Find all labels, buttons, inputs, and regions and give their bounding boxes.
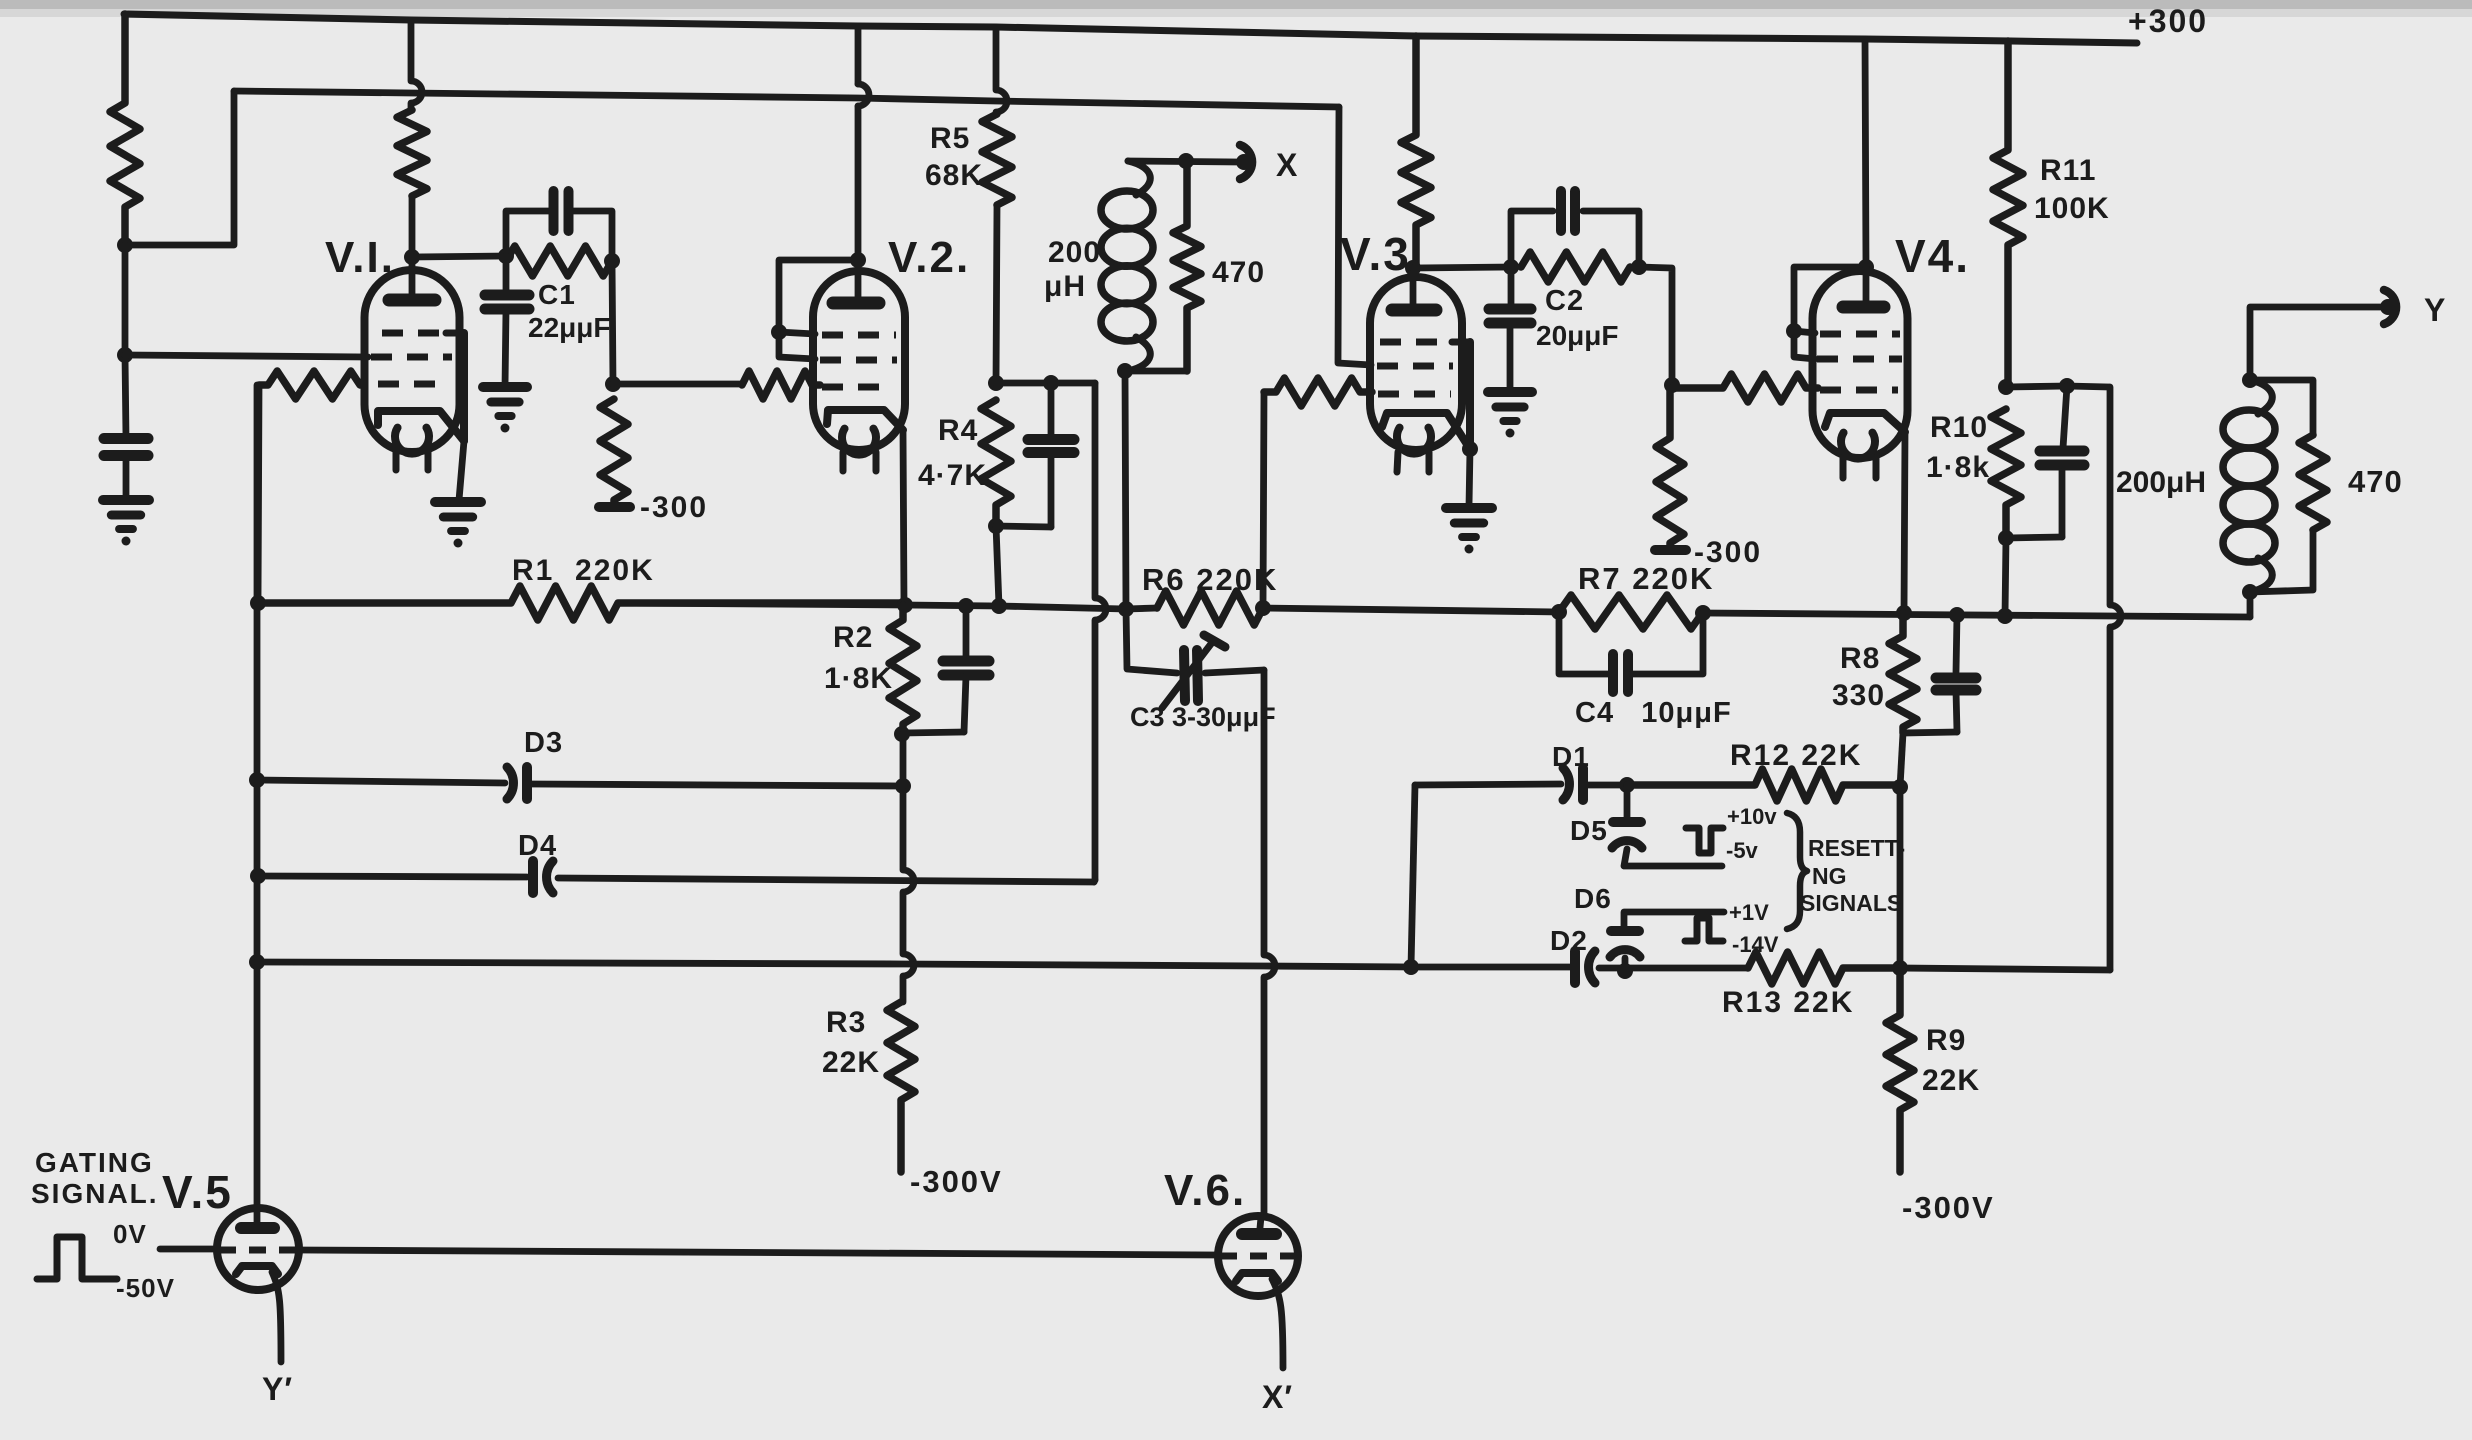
diode D5 — [1612, 785, 1642, 848]
junction D3 line tap — [249, 772, 265, 788]
svg-text:R12 22K: R12 22K — [1730, 739, 1862, 772]
wire V5 anode column — [254, 385, 261, 1208]
wire V1 anode to RC network — [412, 256, 506, 257]
svg-text:C1: C1 — [538, 279, 576, 310]
wire D1 feeder — [1411, 785, 1415, 967]
wire V4 bracket g3 stub — [1794, 331, 1815, 333]
tube V3 g3 dashes — [1380, 339, 1452, 346]
tube V3 cathode — [1382, 413, 1470, 449]
junction C1 tap — [498, 248, 514, 264]
svg-text:V.5: V.5 — [162, 1166, 233, 1218]
label 470 (Y damping) — [2348, 464, 2403, 499]
tube V4 g1 dashes — [1820, 387, 1898, 394]
tube V1 grid g2 dashes — [371, 354, 452, 361]
junction V2 anode node — [850, 252, 866, 268]
tube V1 heater legs — [396, 452, 428, 470]
svg-text:V.6.: V.6. — [1164, 1166, 1246, 1215]
label R4 value — [918, 459, 987, 492]
tube V3 g1 dashes — [1378, 391, 1451, 398]
label R3 value — [822, 1046, 880, 1079]
wire node A down — [122, 245, 129, 355]
label R6 220K — [1142, 562, 1278, 597]
tube V5 anode bar — [241, 1222, 274, 1234]
wire rail to coil2 — [2247, 592, 2254, 617]
wire D2 to R13 — [1599, 965, 1748, 972]
capacitor across R8 — [1903, 615, 1976, 733]
label -5v — [1726, 838, 1759, 863]
junction rail R10 tap — [1997, 608, 2013, 624]
junction coil2 bottom node — [2242, 584, 2258, 600]
label R11 — [2040, 154, 2096, 187]
label C1 value 22uuF — [528, 312, 611, 343]
junction R4 top node — [988, 375, 1004, 391]
ground under C1 — [483, 387, 527, 433]
svg-text:D5: D5 — [1570, 815, 1608, 846]
label R12 22K — [1730, 739, 1862, 772]
wire C1 to ground — [505, 310, 506, 387]
capacitor decoupling (left, unlabelled) — [104, 439, 148, 456]
junction R13 right node — [1892, 960, 1908, 976]
resistor R2 1-8K — [889, 605, 917, 734]
tube V1 cathode bar — [460, 333, 468, 441]
tube V2 heater — [842, 429, 876, 455]
resistor R13 22K — [1748, 952, 1900, 984]
junction V1 anode node — [404, 249, 420, 265]
label V5 — [162, 1166, 233, 1218]
svg-text:D3: D3 — [524, 727, 563, 759]
wire R10-node to reset node (hops rail) — [2067, 386, 2121, 970]
svg-text:-300V: -300V — [910, 1164, 1003, 1199]
tube V4 g2 dashes — [1817, 356, 1902, 363]
tube V2 heater legs — [843, 452, 876, 471]
wire main feedback rail — [618, 603, 2250, 617]
resistor R6 220K — [1157, 591, 1263, 625]
label -14V — [1732, 932, 1779, 957]
junction D3 anode node — [895, 778, 911, 794]
waveform resetting pulse 2 — [1685, 918, 1723, 941]
label R10 value — [1926, 451, 1990, 484]
tube V2 anode bar — [833, 297, 879, 310]
junction reset line tap — [249, 954, 265, 970]
svg-text:GATING: GATING — [35, 1147, 154, 1178]
svg-text:+300: +300 — [2128, 3, 2208, 39]
resistor divider to -300 (V1 stage) — [600, 399, 628, 507]
wire coupling right jog — [1639, 267, 1672, 385]
tube V2 envelope — [813, 271, 905, 450]
tube V1 envelope — [365, 270, 460, 452]
capacitor C3 variable — [1126, 609, 1264, 708]
svg-text:C2: C2 — [1545, 285, 1584, 317]
terminal -300 bar (V4 stage) — [1655, 545, 1686, 555]
svg-text:X: X — [1276, 147, 1298, 183]
capacitor across R (V1 coupling, top) — [554, 191, 569, 231]
label -300V (R9) — [1902, 1190, 1995, 1225]
svg-text:-300V: -300V — [1902, 1190, 1995, 1225]
tube V2 cathode — [827, 410, 903, 430]
junction rail R7 right — [1695, 605, 1711, 621]
wire V3 anode link — [1413, 267, 1511, 268]
tube V5 envelope — [217, 1208, 299, 1290]
svg-text:D2: D2 — [1550, 925, 1588, 956]
label R13 22K — [1722, 986, 1854, 1019]
wire coil node to rail — [1125, 371, 1126, 609]
brace resetting signals — [1787, 813, 1807, 929]
wire Y lead — [2250, 307, 2381, 380]
resistor R12 22K — [1627, 769, 1900, 801]
svg-text:-5v: -5v — [1726, 838, 1759, 863]
label 200uH (Y) — [2116, 466, 2206, 499]
terminal X — [1236, 145, 1252, 179]
tube V6 anode bar — [1242, 1228, 1276, 1240]
svg-text:R1 220K: R1 220K — [512, 554, 655, 587]
junction R10 cap tap — [2059, 378, 2075, 394]
svg-text:100K: 100K — [2034, 192, 2110, 225]
label V6 — [1164, 1166, 1246, 1215]
label R1 220K — [512, 554, 655, 587]
label D5 — [1570, 815, 1608, 846]
diode D1 — [1563, 768, 1583, 800]
junction rail V4 cathode tap — [1896, 605, 1912, 621]
diode D3 — [507, 767, 527, 799]
svg-text:Y: Y — [2424, 292, 2446, 328]
junction R12 right node — [1892, 779, 1908, 795]
svg-text:V.3: V.3 — [1340, 228, 1411, 280]
wire 470 bottom jog — [2250, 530, 2313, 592]
label V3 — [1340, 228, 1411, 280]
wire R10 cap top link — [2006, 386, 2067, 387]
junction RC right node — [604, 253, 620, 269]
wire D6 to +1V line — [1624, 912, 1724, 928]
wire V3 cathode to ground — [1469, 449, 1470, 506]
svg-text:R7 220K: R7 220K — [1578, 561, 1714, 596]
junction V4 grid node — [1664, 377, 1680, 393]
svg-text:R5: R5 — [930, 122, 970, 155]
resistor R1 220K — [258, 586, 905, 620]
wire V4 anode riser — [1865, 39, 1866, 267]
resistor 470 damping (X) — [1173, 161, 1201, 371]
junction rail R7 left — [1551, 604, 1567, 620]
junction V2 bracket tap — [771, 324, 787, 340]
junction C2 node — [1503, 259, 1519, 275]
svg-text:D6: D6 — [1574, 883, 1612, 914]
terminal -300 bar (V1 stage) — [599, 502, 630, 512]
tube V1 grid g3 dashes — [382, 330, 446, 337]
label 470 (X damping) — [1212, 256, 1265, 289]
wire screen rail right drop to V3 grid — [1338, 107, 1371, 365]
junction reset-feeder node — [1403, 959, 1419, 975]
tube V3 envelope — [1370, 277, 1462, 450]
svg-text:V4.: V4. — [1895, 230, 1970, 282]
wire R4 bottom to rail — [996, 526, 999, 606]
label 200 (coil value) — [1048, 236, 1101, 269]
capacitor C4 — [1559, 612, 1703, 692]
tube V3 anode stem — [1410, 268, 1417, 305]
svg-text:RESETT-: RESETT- — [1808, 835, 1905, 861]
label Y' — [262, 1371, 293, 1407]
label -300 (V4 stage) — [1694, 536, 1762, 569]
tube V3 cathode bar — [1466, 342, 1474, 449]
wire V2 bracket g3 stub — [779, 332, 815, 334]
tube V1 anode bar — [389, 294, 435, 307]
junction V1 grid tap — [117, 347, 133, 363]
inductor 200uH (Y output) — [2223, 380, 2275, 592]
resistor R11 100K — [1993, 41, 2023, 387]
label D1 — [1552, 741, 1590, 772]
label D3 — [524, 727, 563, 759]
svg-text:68K: 68K — [925, 159, 983, 192]
junction coupling right node — [1631, 259, 1647, 275]
wire V3 grid-resistor drop — [1263, 392, 1264, 608]
label C4 value — [1575, 697, 1732, 729]
resistor R9 22K — [1886, 968, 1914, 1172]
wire resetting line (left part) — [257, 962, 1411, 967]
label R2 — [833, 621, 873, 654]
svg-text:22μμF: 22μμF — [528, 312, 611, 343]
wire V2 cathode drop to rail — [903, 430, 904, 605]
wire R12-node drop — [1897, 787, 1904, 968]
svg-text:+10v: +10v — [1727, 804, 1777, 829]
label C2 value — [1536, 320, 1619, 351]
tube V2 g3 dashes — [822, 332, 896, 339]
capacitor C1 — [485, 295, 529, 309]
wire V2 grid node to grid resistor — [613, 381, 740, 388]
label R4 — [938, 414, 978, 447]
diode D4 — [533, 861, 553, 893]
resistor V3 anode load (unlabelled) — [1401, 36, 1431, 268]
wire gating line V5 to V6 — [299, 1250, 1218, 1255]
label V2 — [888, 233, 970, 282]
tube V6 anode stem — [1260, 1217, 1261, 1228]
junction rail R2 tap — [897, 597, 913, 613]
svg-text:C3 3-30μμF: C3 3-30μμF — [1130, 702, 1276, 732]
label D4 — [518, 830, 557, 862]
junction 470 top tap — [1178, 153, 1194, 169]
svg-text:X′: X′ — [1262, 1379, 1293, 1415]
tube V1 heater — [395, 428, 429, 454]
wire R2-bottom down (hops D4 and reset lines) — [903, 734, 914, 1002]
svg-text:330: 330 — [1832, 679, 1885, 712]
tube V3 heater — [1397, 428, 1431, 454]
inductor 200uH (X output) — [1101, 161, 1153, 371]
svg-text:SIGNAL.: SIGNAL. — [31, 1178, 159, 1209]
svg-text:R6 220K: R6 220K — [1142, 562, 1278, 597]
wire V2 anode riser — [858, 26, 869, 260]
resistor V1 anode load (unlabelled) — [397, 20, 427, 257]
tube V1 cathode — [378, 411, 464, 441]
diode D2 — [1575, 951, 1595, 983]
label +1V — [1729, 900, 1769, 925]
label -300V (R3) — [910, 1164, 1003, 1199]
junction feedback node A — [117, 237, 133, 253]
wire screen-feed rail (second horizontal rail) — [234, 91, 1339, 107]
svg-text:V.2.: V.2. — [888, 233, 970, 282]
wire node A to capacitor — [125, 355, 126, 438]
tube V6 cathode — [1236, 1273, 1278, 1281]
resistor R7 220K — [1559, 595, 1703, 629]
svg-text:22K: 22K — [822, 1046, 880, 1079]
ground under C2 — [1488, 392, 1532, 438]
svg-text:22K: 22K — [1922, 1064, 1980, 1097]
wire D4 line — [258, 876, 1095, 882]
wire V5 grid lead — [160, 1246, 217, 1253]
svg-text:C4 10μμF: C4 10μμF — [1575, 697, 1732, 729]
capacitor across V3 coupling R — [1561, 191, 1575, 231]
resistor 470 damping (Y) — [2299, 435, 2327, 530]
label X — [1276, 147, 1298, 183]
junction V4 bracket tap — [1786, 323, 1802, 339]
tube V2 g1 dashes — [822, 384, 894, 391]
resistor R5 68K — [982, 27, 1012, 383]
svg-text:Y′: Y′ — [262, 1371, 293, 1407]
tube V4 envelope — [1813, 271, 1908, 458]
wire reset line D2 segment — [1411, 964, 1570, 971]
wire RC left stub — [506, 211, 552, 256]
wire coil bottom tie — [1125, 368, 1187, 375]
wire R8 bottom drop — [1900, 733, 1903, 787]
tube V3 g2 dashes — [1377, 363, 1453, 370]
wire V2 anode-node link to D4 riser — [1051, 380, 1095, 387]
junction coil2 top node — [2242, 372, 2258, 388]
tube V6 grid dashes — [1220, 1253, 1296, 1260]
junction rail cap tap — [958, 598, 974, 614]
terminal Y — [2380, 290, 2396, 324]
tube V4 g3 dashes — [1820, 331, 1900, 338]
wire C2 pair top — [1511, 211, 1553, 267]
svg-text:R10: R10 — [1930, 411, 1988, 444]
ground under V3 cathode — [1446, 508, 1492, 554]
wire V5 cathode to Y' — [272, 1272, 281, 1362]
svg-text:+1V: +1V — [1729, 900, 1769, 925]
label R10 — [1930, 411, 1988, 444]
label 0V — [113, 1219, 147, 1249]
label C1 — [538, 279, 576, 310]
ground under V1 cathode — [435, 502, 481, 548]
wire screen rail left drop to feedback node — [125, 91, 234, 245]
svg-text:R11: R11 — [2040, 154, 2096, 187]
svg-text:1·8k: 1·8k — [1926, 451, 1990, 484]
label R5 — [930, 122, 970, 155]
svg-text:-50V: -50V — [116, 1273, 175, 1303]
junction coil bottom node — [1117, 363, 1133, 379]
junction rail R6 right — [1255, 600, 1271, 616]
junction V3 cathode node — [1462, 441, 1478, 457]
svg-text:470: 470 — [1212, 256, 1265, 289]
wire V6 anode column (hops reset line) — [1264, 670, 1275, 1217]
resistor divider to -300 (V4 stage) — [1656, 385, 1684, 550]
svg-text:R2: R2 — [833, 621, 873, 654]
ground under left capacitor — [103, 500, 149, 546]
svg-text:200μH: 200μH — [2116, 466, 2206, 499]
svg-text:0V: 0V — [113, 1219, 147, 1249]
wire R4 cap top link — [996, 380, 1051, 387]
label V1 — [325, 233, 395, 282]
label V4 — [1895, 230, 1970, 282]
label R8 — [1840, 642, 1880, 675]
junction rail coil tap — [1118, 601, 1134, 617]
svg-text:NG: NG — [1812, 863, 1847, 889]
capacitor across R10 — [2006, 386, 2084, 538]
waveform resetting pulse 1 — [1686, 828, 1723, 853]
label D6 — [1574, 883, 1612, 914]
junction rail R8cap tap — [1949, 607, 1965, 623]
resistor R10 1-8k — [1991, 409, 2021, 538]
label R5 value — [925, 159, 983, 192]
resistor R8 330 — [1889, 613, 1917, 733]
svg-text:1·8K: 1·8K — [824, 662, 893, 695]
wire V6 cathode to X' — [1272, 1279, 1283, 1368]
wire RC right down — [612, 261, 613, 384]
svg-text:SIGNALS: SIGNALS — [1800, 890, 1902, 916]
junction R4 cap tap — [1043, 375, 1059, 391]
resistor V3 grid g1 (unlabelled) — [1264, 378, 1372, 406]
wire V4 cathode drop to rail — [1904, 432, 1905, 613]
svg-text:R8: R8 — [1840, 642, 1880, 675]
wire C1 stem — [503, 256, 510, 294]
label -50V — [116, 1273, 175, 1303]
label R8 value — [1832, 679, 1885, 712]
tube V5 anode stem — [254, 1208, 261, 1222]
tube V4 anode stem — [1863, 267, 1870, 302]
tube V5 cathode — [236, 1266, 278, 1274]
label R11 value — [2034, 192, 2110, 225]
junction R1 left node — [250, 595, 266, 611]
resistor anode load of V1-left (unlabelled) — [110, 14, 140, 245]
wire C2 pair right — [1583, 211, 1639, 267]
label Y — [2424, 292, 2446, 328]
tube V6 envelope — [1218, 1216, 1298, 1296]
svg-text:-300: -300 — [640, 491, 708, 524]
resistor R3 22K — [887, 1002, 915, 1172]
svg-text:R9: R9 — [1926, 1024, 1966, 1057]
tube V3 g3-to-bar stub — [1452, 339, 1470, 346]
tube V4 cathode — [1825, 413, 1905, 432]
capacitor across R2 — [903, 606, 989, 733]
wire capacitor to ground — [123, 455, 130, 500]
label +300 net — [2128, 3, 2208, 39]
junction R10 top node — [1998, 379, 2014, 395]
resistor V1 coupling (506-612) — [506, 246, 612, 276]
svg-text:R3: R3 — [826, 1006, 866, 1039]
tube V3 anode bar — [1392, 304, 1436, 317]
tube V4 heater legs — [1843, 458, 1876, 478]
resistor V2 grid g1 (unlabelled) — [742, 371, 820, 399]
junction R10 bottom node — [1998, 530, 2014, 546]
tube V4 heater — [1841, 433, 1875, 459]
wire X line — [1128, 161, 1238, 162]
label R9 value — [1922, 1064, 1980, 1097]
resistor V3 coupling (1511-1639) — [1521, 252, 1630, 282]
wire D3 line — [257, 780, 903, 786]
label RESETT- — [1808, 835, 1905, 861]
resistor V4 grid g1 (unlabelled) — [1672, 374, 1818, 402]
label +10v — [1727, 804, 1777, 829]
wire V1 g2 feed from node A — [125, 355, 368, 357]
wire V4 screen bracket — [1794, 267, 1866, 359]
tube V2 anode stem — [855, 260, 862, 298]
junction R2 bottom node — [894, 726, 910, 742]
capacitor C2 — [1489, 267, 1531, 392]
svg-text:D4: D4 — [518, 830, 557, 862]
junction V3 anode node — [1405, 260, 1421, 276]
wire 470 top jog — [2250, 380, 2313, 435]
junction rail R4 tap — [991, 598, 1007, 614]
tube V1 anode stem — [409, 257, 416, 295]
svg-text:4·7K: 4·7K — [918, 459, 987, 492]
wire V1 grid-resistor drop — [258, 385, 259, 603]
wire +300 top supply rail — [124, 14, 2137, 43]
junction D4 line tap — [250, 868, 266, 884]
svg-text:D1: D1 — [1552, 741, 1590, 772]
